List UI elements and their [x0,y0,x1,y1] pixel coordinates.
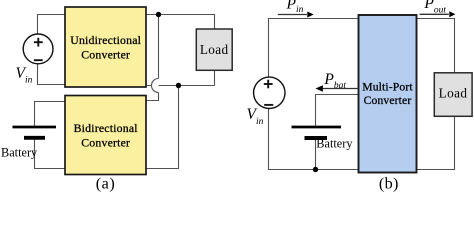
svg-text:Load: Load [200,42,229,57]
svg-text:Converter: Converter [81,47,130,61]
svg-text:Unidirectional: Unidirectional [70,33,141,47]
svg-text:Converter: Converter [364,94,412,107]
svg-text:Battery: Battery [316,137,353,151]
svg-text:(a): (a) [96,175,115,192]
svg-text:Load: Load [439,86,468,101]
svg-text:Multi-Port: Multi-Port [362,81,413,94]
svg-text:(b): (b) [379,175,399,192]
svg-text:Converter: Converter [81,136,130,150]
svg-text:Battery: Battery [1,145,38,159]
svg-text:Bidirectional: Bidirectional [74,121,139,135]
